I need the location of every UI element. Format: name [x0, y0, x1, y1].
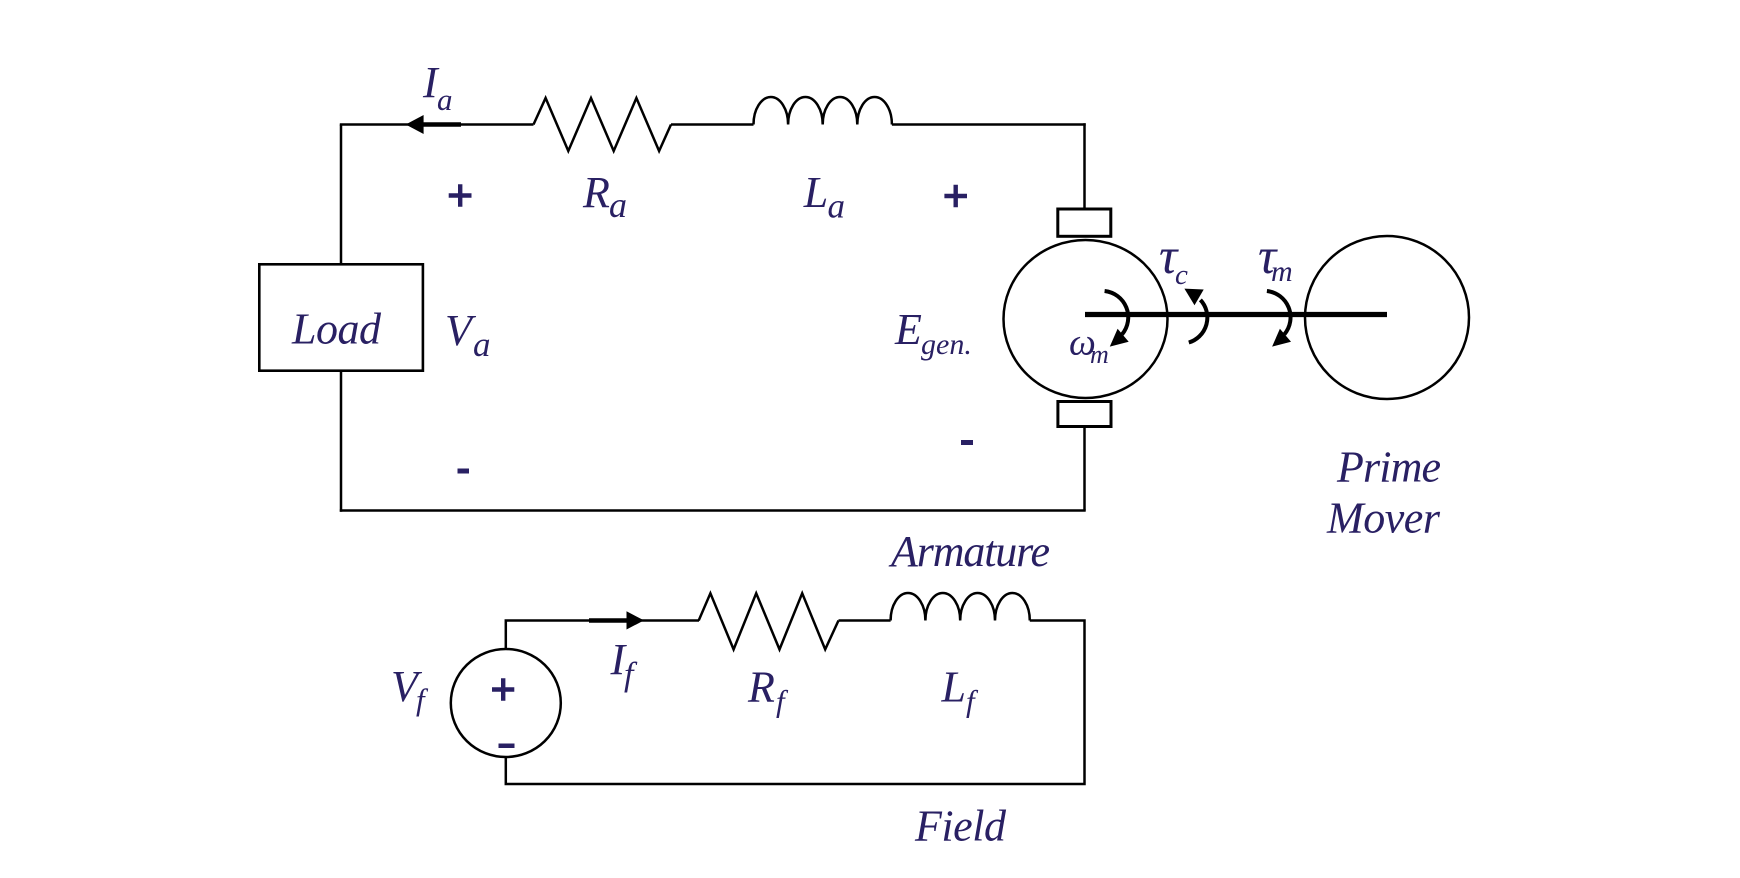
svg-text:Load: Load [291, 305, 382, 354]
label + (left, top of Va) [449, 184, 472, 207]
load box [259, 264, 423, 370]
field: top rail from source [506, 621, 699, 649]
rotation arrow omega_m [1105, 291, 1129, 347]
wire: armature top rail segment 3 [892, 123, 1086, 126]
label + (inside source) [492, 678, 514, 700]
shaft [1085, 312, 1387, 317]
svg-text:Armature: Armature [888, 527, 1050, 576]
resistor Rf [699, 593, 839, 649]
brush top [1058, 209, 1111, 236]
label - (below Egen) [961, 440, 973, 445]
wire: armature left vertical top (node to load) [340, 125, 343, 264]
prime mover circle [1305, 236, 1469, 399]
generator machine circle [1004, 240, 1168, 398]
brush bottom [1058, 402, 1111, 427]
svg-text:m: m [1271, 255, 1293, 288]
wire: armature top rail segment 2 [671, 123, 754, 126]
current arrow If [589, 618, 630, 623]
resistor Ra [534, 98, 672, 151]
svg-text:L: L [941, 663, 966, 712]
svg-text:Prime: Prime [1336, 443, 1441, 492]
wire: armature left vertical bottom (load to bottom rail) [340, 372, 343, 512]
rotation arrow tau_m [1267, 291, 1291, 347]
inductor La [754, 97, 892, 125]
svg-text:m: m [1090, 340, 1109, 369]
label + (right, top of Egen) [944, 185, 967, 207]
svg-text:R: R [747, 663, 775, 712]
current arrow Ia [420, 122, 461, 127]
inductor Lf [891, 593, 1030, 621]
svg-text:a: a [828, 187, 846, 226]
label - (below Va) [458, 469, 470, 474]
svg-text:f: f [966, 684, 979, 719]
wire: armature bottom rail [340, 509, 1086, 512]
svg-text:f: f [776, 684, 789, 719]
svg-text:R: R [582, 168, 610, 217]
wire: armature right vertical upper (top rail to brush) [1083, 123, 1086, 207]
label - (inside source) [499, 744, 515, 749]
svg-text:Mover: Mover [1326, 494, 1441, 543]
svg-text:f: f [416, 682, 429, 717]
wire: armature top rail segment 1 [340, 123, 534, 126]
svg-text:c: c [1175, 259, 1188, 291]
svg-text:Field: Field [914, 802, 1007, 851]
wire: field top rail segment 2 [839, 619, 891, 622]
svg-text:a: a [437, 82, 453, 117]
wire: field top rail segment 3 + right vertical + bottom rail + left vertical [506, 621, 1085, 785]
svg-text:f: f [624, 657, 638, 694]
svg-text:a: a [473, 325, 491, 364]
svg-text:E: E [894, 305, 922, 354]
svg-text:L: L [803, 168, 828, 217]
svg-text:gen.: gen. [921, 328, 972, 361]
wire: armature right vertical lower (brush to bottom rail) [1083, 428, 1086, 511]
svg-text:a: a [609, 185, 627, 225]
source Vf circle [451, 649, 561, 757]
rotation arrow tau_c [1184, 289, 1207, 343]
